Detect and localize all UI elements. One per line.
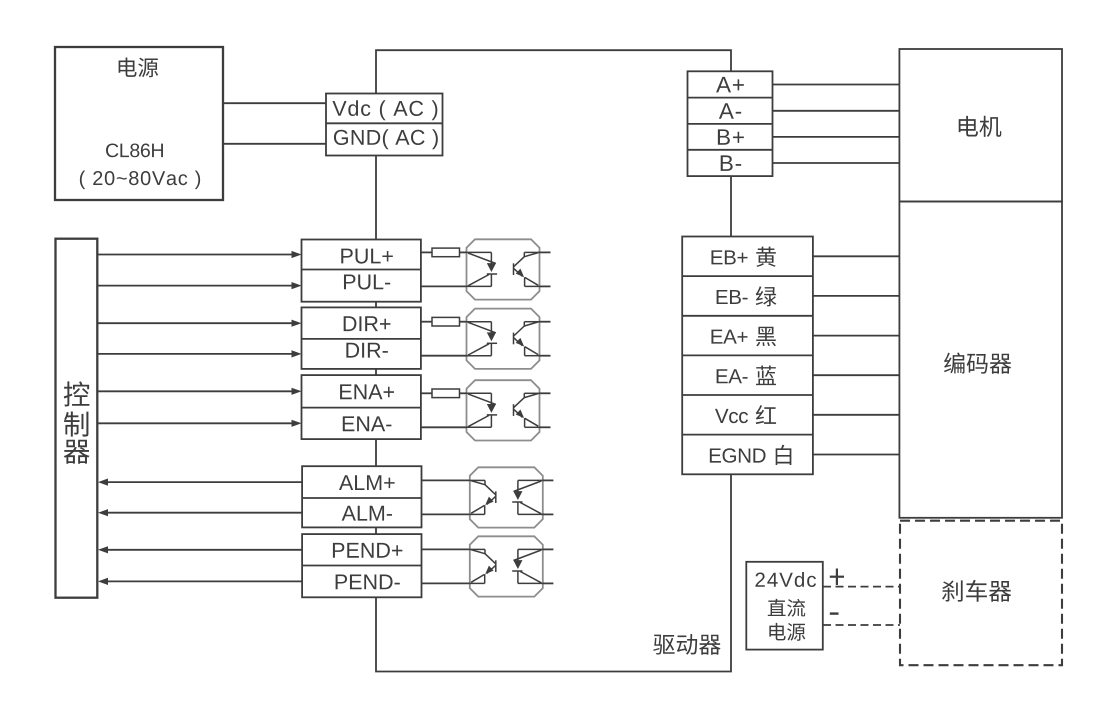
controller box 控制器 — [56, 239, 98, 598]
pin label GND( AC ) — [334, 129, 438, 149]
label 编码器 — [944, 353, 1011, 374]
pin label PEND- — [336, 575, 400, 590]
label + — [830, 569, 844, 586]
brake box 刹车器 (dashed) — [900, 521, 1062, 666]
wire U5 (PEND) stub top — [543, 548, 554, 550]
pin label ENA- — [343, 416, 392, 431]
wire controller to ENA- — [97, 420, 301, 427]
label CL86H — [106, 143, 163, 157]
wire controller to DIR- — [97, 350, 301, 357]
pin label EA+ 黑 — [711, 327, 775, 346]
pin label Vdc (AC) — [332, 100, 437, 120]
label - — [830, 612, 839, 614]
pin label PUL- — [344, 275, 390, 290]
resistor R2 — [421, 317, 467, 326]
power supply box PS1 (CL86H 20~80Vac) — [55, 47, 223, 200]
wire PS1 to Vdc — [223, 102, 326, 104]
wire B- to motor — [773, 162, 900, 164]
pin label EGND 白 — [710, 445, 792, 465]
label (20~80Vac) — [80, 171, 200, 190]
wire U1 (PUL) output stub bottom — [540, 285, 551, 287]
pin label ALM- — [342, 506, 392, 521]
pin label Vcc 红 — [715, 405, 776, 424]
wire ALM- to controller — [98, 509, 302, 516]
wire U5 (PEND) bottom to connector — [421, 582, 470, 584]
pin label A+ — [716, 77, 744, 92]
pin label EB+ 黄 — [711, 247, 775, 267]
wire controller to ENA+ — [97, 388, 301, 395]
wire A+ to motor — [773, 84, 900, 86]
pin label A- — [719, 103, 741, 118]
label 控制器 vertical — [64, 381, 90, 463]
pin label PUL+ — [341, 249, 393, 264]
wire PEND- to controller — [98, 578, 302, 585]
resistor R1 — [421, 248, 467, 257]
label 电源 — [119, 57, 159, 77]
wire U2 (DIR) output stub bottom — [540, 355, 551, 357]
wire B- to EB bus — [730, 176, 732, 236]
optocoupler U3 (ENA) — [467, 380, 540, 440]
connector PEND — [302, 534, 421, 597]
resistor R3 — [421, 389, 467, 398]
wire Vcc to encoder — [813, 414, 900, 416]
pin label EA- 蓝 — [717, 366, 776, 386]
label 电源 — [769, 623, 805, 641]
pin label B+ — [718, 129, 744, 144]
motor box 电机 — [899, 49, 1062, 202]
wire ALM+ to controller — [98, 479, 302, 486]
optocoupler U2 (DIR) — [467, 309, 540, 369]
wire PEND+ to controller — [98, 546, 302, 553]
wire ALM to PEND bus — [375, 527, 377, 534]
wire to U3 (ENA) cathode — [421, 426, 467, 428]
wire EB- to encoder — [813, 295, 900, 297]
connector Vdc/GND(AC) — [326, 94, 443, 156]
wire EGND to encoder — [813, 454, 900, 456]
wire U1 (PUL) output stub top — [540, 251, 551, 253]
wire U3 (ENA) output stub bottom — [540, 426, 551, 428]
connector EB/EA/Vcc/EGND — [682, 237, 813, 475]
label 直流 — [768, 599, 805, 617]
optocoupler U1 (PUL) — [467, 239, 540, 299]
pin label EB- 绿 — [717, 286, 777, 306]
connector PUL — [302, 240, 421, 302]
wire controller to PUL- — [97, 282, 301, 289]
wire DIR to ENA bus — [375, 369, 377, 375]
pin label DIR- — [346, 343, 387, 358]
connector DIR — [302, 307, 421, 369]
wire to U2 (DIR) cathode — [421, 355, 467, 357]
optocoupler U5 (PEND) — [470, 536, 543, 596]
wire EB+ to encoder — [813, 255, 900, 257]
driver outline top edge (wire) — [376, 50, 731, 93]
wire controller to PUL+ — [97, 251, 301, 258]
pin label B- — [721, 155, 741, 170]
label 电机 — [959, 116, 1002, 137]
label 刹车器 — [942, 580, 1011, 602]
wire PS1 to GND — [223, 143, 326, 145]
wire EA+ to encoder — [813, 335, 900, 337]
driver outline bottom edge (wire) — [376, 474, 731, 671]
pin label DIR+ — [344, 316, 391, 331]
wire U2 (DIR) output stub top — [540, 321, 551, 323]
wire U3 (ENA) output stub top — [540, 392, 551, 394]
connector ENA — [302, 375, 421, 439]
wire 24V+ to brake (dashed) — [823, 586, 900, 588]
connector A+/A-/B+/B- — [688, 71, 773, 176]
driver label 驱动器 — [653, 634, 720, 655]
wire B+ to motor — [773, 136, 900, 138]
wire U4 (ALM) stub bottom — [543, 513, 554, 515]
wire U4 (ALM) top to connector — [421, 479, 470, 481]
wire U5 (PEND) stub bottom — [543, 582, 554, 584]
wire controller to DIR+ — [97, 320, 301, 327]
connector ALM — [302, 466, 421, 527]
optocoupler U4 (ALM) — [470, 467, 543, 527]
wire to U1 (PUL) cathode — [421, 285, 467, 287]
pin label PEND+ — [333, 543, 402, 558]
wire PUL to DIR bus — [375, 302, 377, 308]
wire 24V- to brake (dashed) — [823, 624, 900, 626]
pin label ALM+ — [339, 475, 395, 490]
wire ENA to ALM bus — [375, 439, 377, 466]
wire EA- to encoder — [813, 374, 900, 376]
wire A- to motor — [773, 110, 900, 112]
wire GND to PUL bus — [375, 156, 377, 240]
pin label ENA+ — [340, 384, 394, 399]
wire U4 (ALM) stub top — [543, 479, 554, 481]
label 24Vdc — [755, 572, 816, 587]
wire U5 (PEND) top to connector — [421, 548, 470, 550]
encoder box 编码器 — [899, 202, 1062, 518]
wire U4 (ALM) bottom to connector — [421, 513, 470, 515]
24Vdc supply box — [746, 562, 823, 650]
